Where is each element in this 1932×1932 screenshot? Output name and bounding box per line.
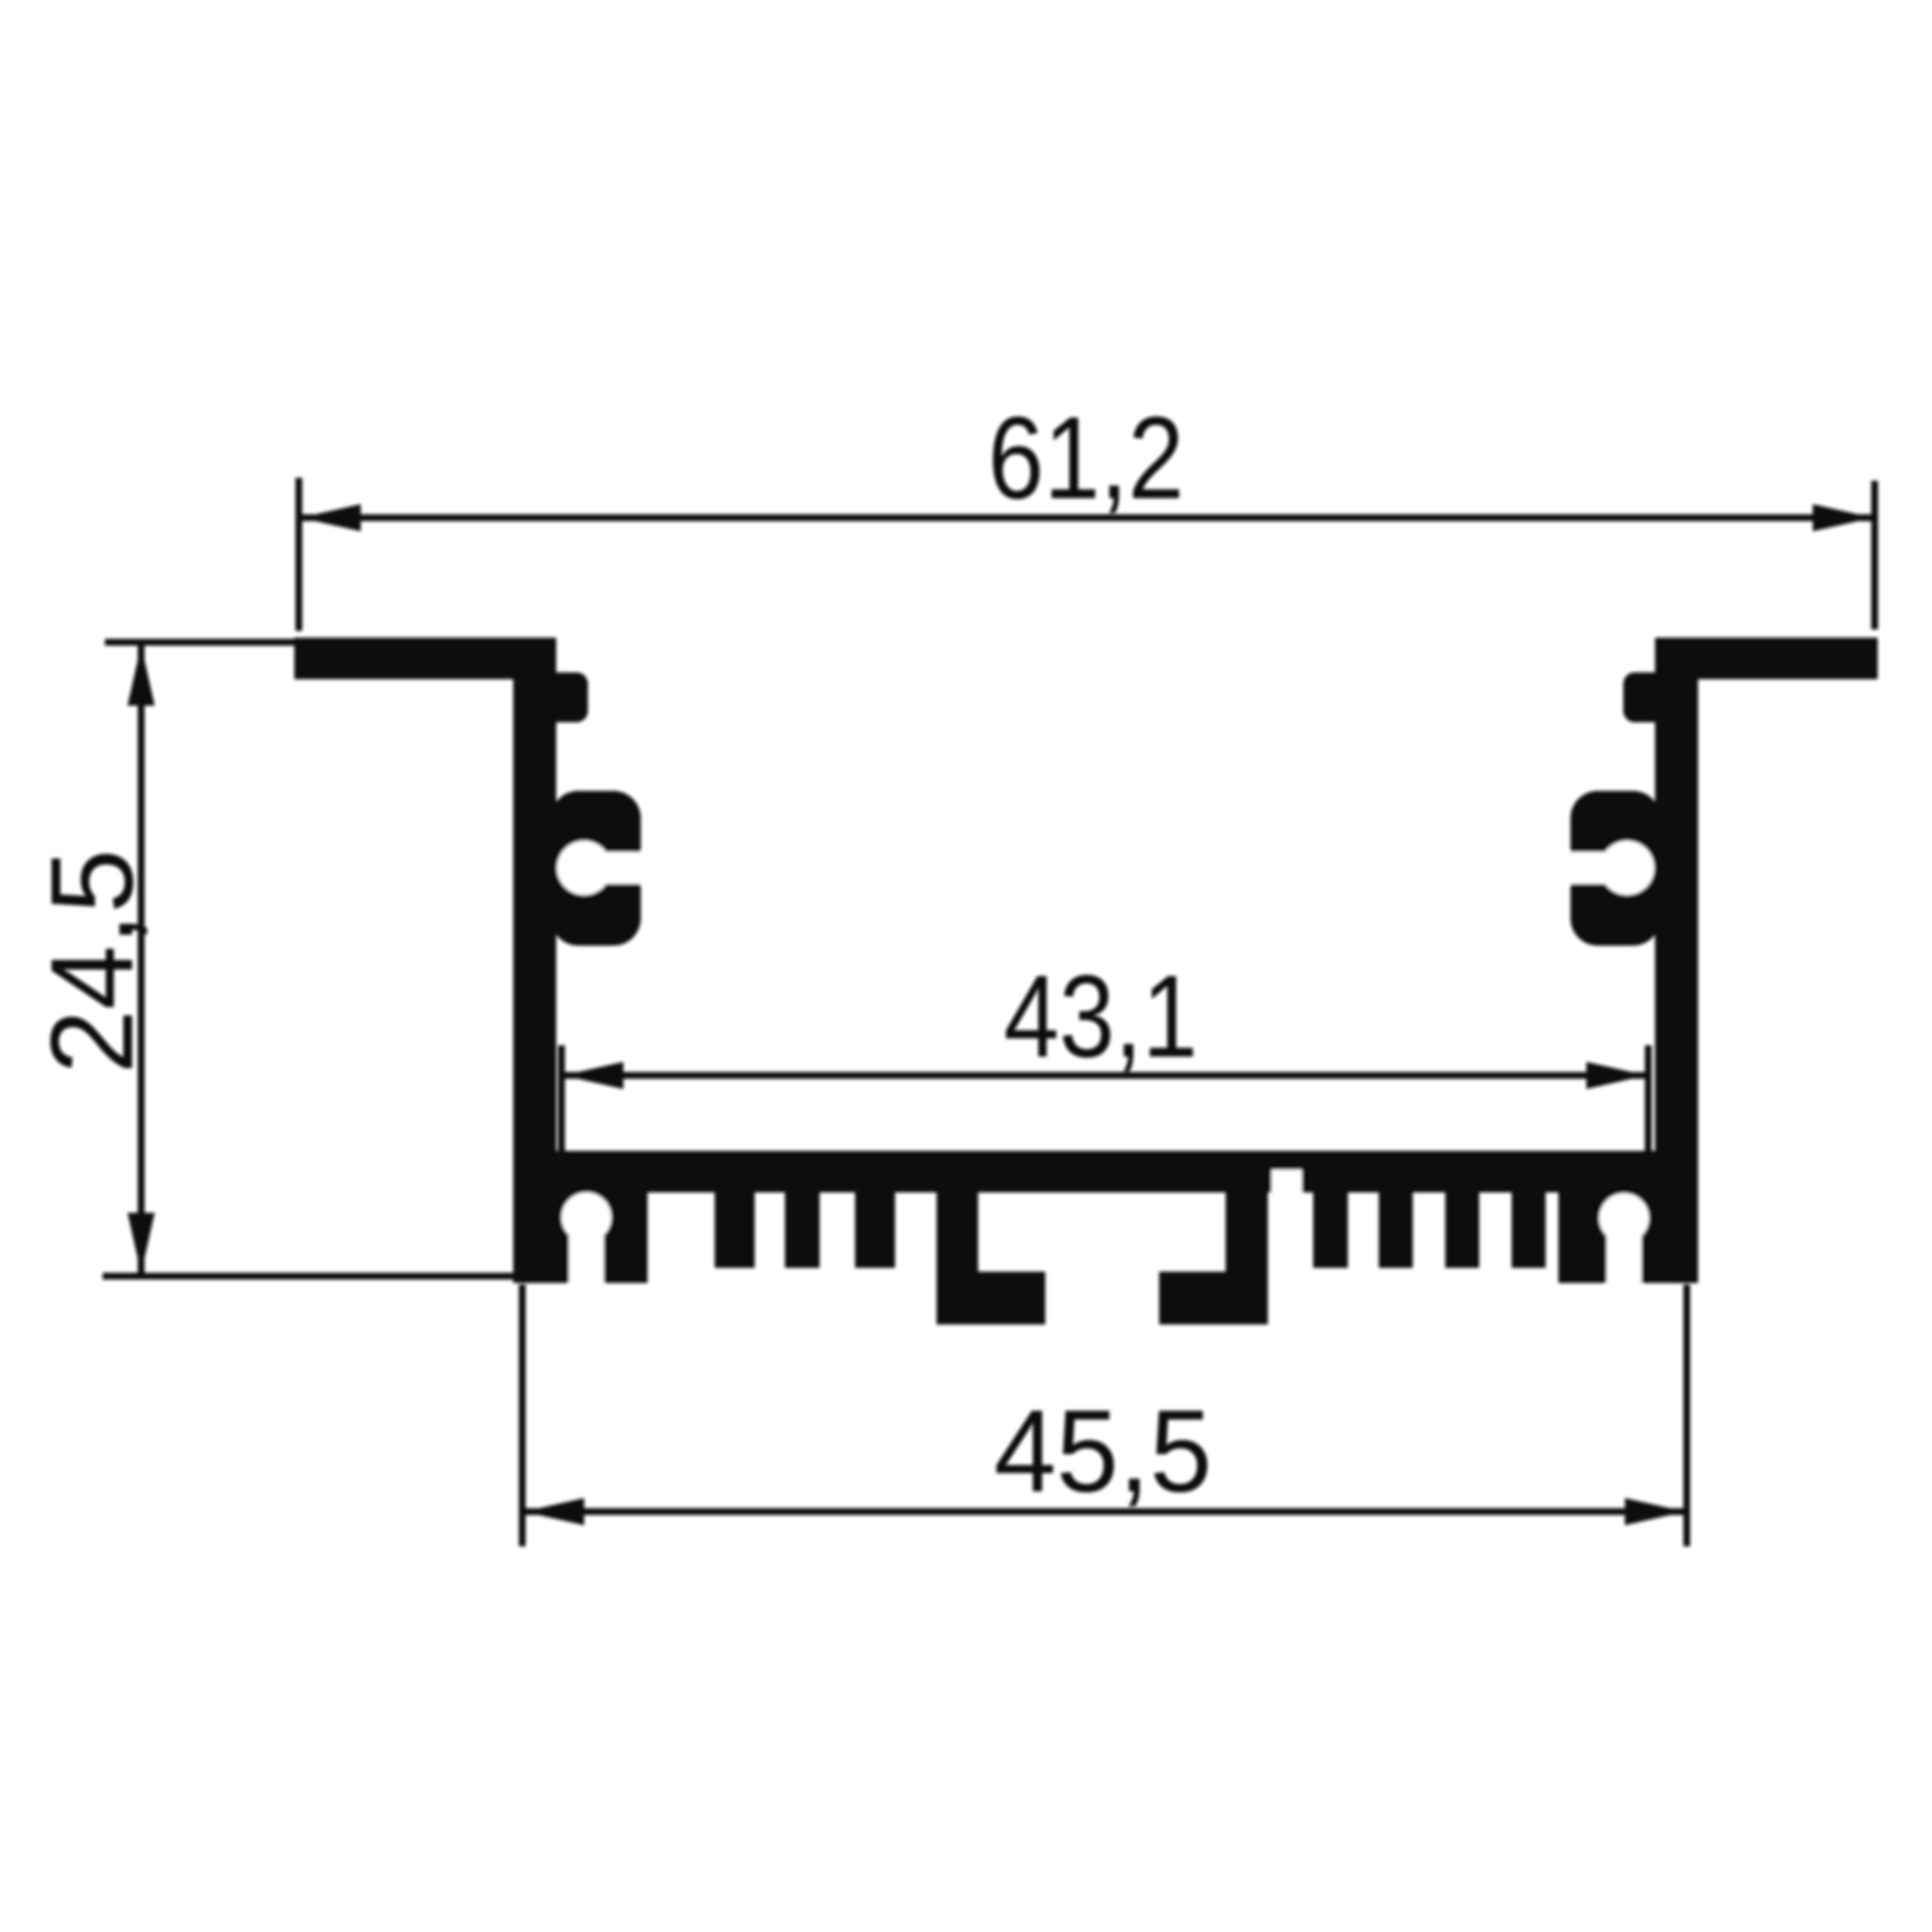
right center foot [1159,1191,1268,1324]
right spring-clip boss [1561,791,1660,946]
dimension 24,5 bottom extension line [103,1273,520,1280]
dimension 43,1 label [1004,951,1198,1081]
heatsink tooth R2 [1379,1191,1413,1268]
bottom left screw-boss block [513,1151,648,1287]
channel floor plate [513,1151,1698,1192]
svg-text:24,5: 24,5 [26,849,157,1074]
floor notch right of right foot stem [1272,1170,1302,1193]
heatsink tooth L3 [855,1191,895,1268]
dimension 45,5 label [994,1386,1212,1516]
profile right top flange [1655,638,1878,679]
dimension 61,2 dim line [299,515,1875,521]
dimension 45,5 right extension line [1684,1284,1690,1546]
left center foot [937,1191,1045,1324]
dimension 43,1 dim line [561,1072,1648,1079]
left retaining knob [543,672,588,722]
svg-text:45,5: 45,5 [994,1386,1212,1516]
heatsink tooth L1 [715,1191,755,1268]
dimension 24,5 bottom arrowhead [128,1213,155,1273]
heatsink tooth R4 [1512,1191,1546,1268]
bottom right screw-boss block [1558,1151,1698,1287]
dimension 45,5 left extension line [519,1284,526,1546]
dimension 45,5 left arrowhead [524,1498,584,1525]
dimension 43,1 right arrowhead [1586,1062,1647,1089]
dimension 24,5 top extension line [105,639,309,646]
right retaining knob [1623,672,1668,722]
dimension 43,1 left arrowhead [563,1062,623,1089]
dimension 43,1 right extension line [1645,1045,1652,1153]
dimension 43,1 left extension line [558,1045,565,1153]
dimension 61,2 label [988,392,1184,523]
profile right side wall [1655,638,1698,1283]
dimension 24,5 label (rotated) [26,849,157,1074]
dimension 61,2 left extension line [296,478,303,631]
dimension 45,5 dim line [522,1509,1687,1515]
left spring-clip boss [551,791,651,946]
dimension 24,5 top arrowhead [128,645,155,706]
heatsink tooth R1 [1313,1191,1348,1268]
dimension 61,2 left arrowhead [300,504,361,531]
dimension 61,2 right arrowhead [1813,504,1873,531]
heatsink tooth L2 [785,1191,820,1268]
profile left top flange [294,638,556,679]
dimension 24,5 dim line [138,644,145,1275]
heatsink tooth R3 [1445,1191,1479,1268]
profile left side wall [513,638,556,1283]
svg-text:61,2: 61,2 [988,392,1184,523]
svg-text:43,1: 43,1 [1004,951,1198,1081]
dimension 45,5 right arrowhead [1625,1498,1685,1525]
dimension 61,2 right extension line [1872,481,1878,629]
